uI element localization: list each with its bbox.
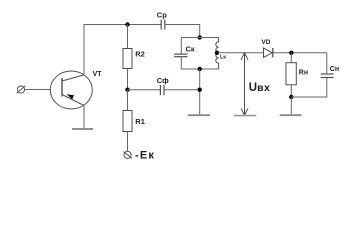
ground emitter	[72, 128, 93, 130]
svg-text:Uвх: Uвх	[249, 82, 270, 94]
svg-text:VT: VT	[93, 71, 103, 78]
svg-text:Сн: Сн	[330, 66, 339, 73]
svg-text:Lк: Lк	[220, 54, 226, 60]
wire base	[25, 89, 51, 91]
svg-text:-Ек: -Ек	[135, 149, 155, 161]
svg-text:Сф: Сф	[157, 76, 169, 85]
wire ground right	[290, 97, 292, 115]
wire tank ground	[199, 69, 201, 115]
node top R2 junction	[125, 22, 129, 26]
wire collector	[83, 25, 85, 75]
wire R2 top	[127, 25, 129, 49]
wire tank left upper	[180, 38, 182, 55]
capacitor Cp	[161, 20, 165, 30]
capacitor Cf	[160, 85, 164, 95]
resistor R2	[123, 49, 132, 69]
ground tank	[188, 114, 210, 116]
node inductor tap	[215, 51, 219, 55]
svg-text:Rн: Rн	[299, 69, 308, 76]
wire R1 bottom	[127, 132, 129, 152]
node tank bottom	[198, 67, 202, 71]
wire R1 top	[127, 90, 129, 111]
wire tank bottom	[181, 68, 218, 70]
ground right	[280, 114, 302, 116]
capacitor Ck	[174, 54, 187, 57]
node Rn bottom	[289, 95, 293, 99]
node Cf left junction	[125, 88, 129, 92]
wire top	[84, 24, 162, 26]
svg-text:VD: VD	[261, 39, 270, 46]
input terminal	[17, 86, 26, 93]
wire Rn bottom	[290, 85, 292, 97]
wire Cn bottom	[291, 78, 327, 98]
wire R2 bottom	[127, 69, 129, 90]
wire top right	[165, 25, 200, 38]
svg-text:Ск: Ск	[186, 45, 195, 54]
wire tank top	[181, 37, 218, 39]
capacitor Cn	[321, 74, 334, 78]
inductor Lk	[216, 38, 219, 70]
wire Cf right	[164, 89, 200, 91]
svg-text:Ср: Ср	[157, 10, 167, 19]
wire Cf left	[128, 89, 161, 91]
svg-text:R1: R1	[135, 117, 145, 126]
node Rn top	[289, 51, 293, 55]
wire diode to load	[273, 52, 327, 54]
wire Cn top	[326, 53, 328, 74]
transistor VT	[50, 71, 92, 109]
resistor R1	[123, 111, 132, 132]
wire emitter	[83, 106, 85, 130]
diode VD	[264, 48, 273, 57]
arrow Uvx	[241, 53, 248, 115]
node tank top	[198, 35, 202, 39]
wire tap to diode	[217, 52, 264, 54]
node Cf right junction	[198, 88, 202, 92]
bar Uvx bottom	[234, 115, 256, 117]
terminal -Ek	[123, 151, 132, 158]
svg-text:R2: R2	[135, 49, 145, 58]
wire tank left lower	[180, 57, 182, 69]
wire Rn top	[290, 53, 292, 63]
resistor Rn	[286, 63, 296, 85]
